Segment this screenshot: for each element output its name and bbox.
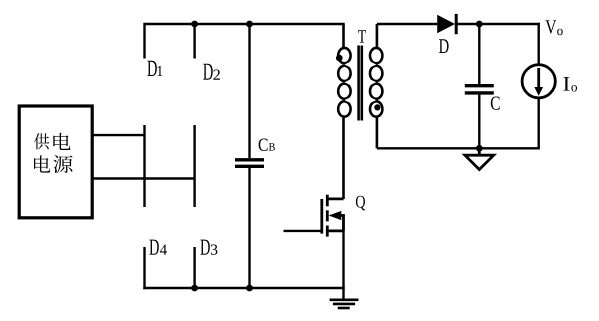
wire: upper output of supply box [92, 134, 145, 136]
label T [358, 30, 366, 42]
wire: bridge middle bar left (D1/D4 column) [143, 125, 145, 207]
label Vo [545, 20, 562, 35]
label D (output diode) [439, 39, 449, 53]
wire: gate lead of Q [284, 230, 322, 232]
transformer T core [359, 46, 362, 121]
label D1 [147, 61, 162, 76]
wire: source of Q to bottom rail and ground [342, 231, 344, 300]
wire: secondary bottom rail [377, 147, 539, 149]
transistor Q (N-MOSFET) [322, 195, 344, 237]
node: junction dot output / C [476, 21, 483, 28]
label Io [563, 77, 577, 91]
power source box 供电电源 [19, 106, 92, 218]
capacitor CB [235, 24, 264, 288]
transformer T secondary winding [367, 24, 383, 148]
transformer T primary winding [338, 24, 354, 199]
node: junction dot bottom rail / D3 [191, 285, 198, 292]
wire: secondary top to diode D [377, 23, 437, 25]
diode D2 bridge arm (top stub) [193, 24, 195, 59]
node: junction dot bottom rail / CB [246, 285, 253, 292]
label D2 [203, 64, 220, 80]
label D3 [200, 240, 217, 255]
diode D [437, 14, 456, 34]
label C (output capacitor) [491, 96, 500, 109]
label CB [259, 139, 275, 151]
node: junction dot top rail / D2 [191, 21, 198, 28]
wire: output corner down to current source Io [538, 23, 540, 65]
label Q [356, 196, 365, 211]
wire: top rail (rectifier + to transformer primary) [145, 23, 345, 25]
node: junction dot secondary bottom / ground [476, 145, 483, 152]
diode D4 bridge arm (bottom stub) [143, 247, 145, 289]
capacitor C [465, 24, 494, 148]
wire: diode D cathode to output corner [456, 23, 540, 25]
label D4 [149, 240, 166, 255]
wire: bottom rail [143, 287, 344, 289]
diode D3 bridge arm (bottom stub) [193, 247, 195, 288]
ground (chassis triangle) on secondary [465, 148, 494, 169]
wire: lower output of supply box [92, 177, 195, 179]
node: junction dot top rail / CB [246, 21, 253, 28]
wire: current source to bottom [538, 98, 540, 150]
transformer polarity dot secondary [374, 104, 380, 110]
diode D1 bridge arm (top stub) [143, 23, 145, 59]
current source Io [522, 65, 555, 98]
ground (earth) at Q source [330, 300, 359, 308]
transformer polarity dot primary [336, 55, 343, 62]
wire: bridge middle bar right (D2/D3 column) [193, 125, 195, 207]
